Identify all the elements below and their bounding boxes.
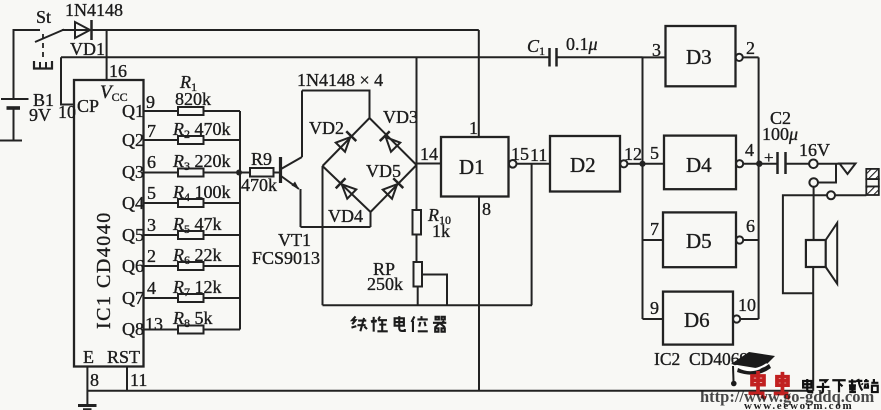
svg-text:R8 5k: R8 5k — [172, 308, 213, 330]
wire D1 out to D2 in — [517, 163, 551, 165]
resistor R5 — [144, 231, 241, 239]
diode VD4 — [336, 178, 357, 199]
svg-text:www.eeworm.com: www.eeworm.com — [744, 400, 853, 410]
svg-text:14: 14 — [420, 144, 438, 164]
wire NC contact link — [818, 164, 836, 183]
wire bridge right corner to D1 pin 14 — [417, 163, 442, 165]
diode bridge edges — [323, 118, 417, 212]
svg-text:1N4148: 1N4148 — [65, 0, 123, 20]
wire bridge bottom corner stub — [370, 212, 372, 227]
svg-text:D2: D2 — [570, 153, 596, 177]
plug symbol hatched — [866, 169, 879, 195]
wire collector to bridge top — [302, 91, 370, 119]
svg-text:7: 7 — [650, 219, 659, 239]
svg-text:5: 5 — [147, 183, 156, 203]
ground — [78, 406, 97, 410]
resistor R1 — [144, 107, 241, 115]
resistor R7 — [144, 294, 241, 302]
jack terminal circle 3 — [827, 191, 835, 199]
watermark text electronic download site (Chinese) — [803, 379, 878, 393]
svg-text:100μ: 100μ — [762, 124, 798, 144]
watermark chongchong red characters — [749, 371, 790, 398]
resistor R2 — [144, 136, 241, 144]
wire D5 out to output bus — [743, 239, 758, 241]
wire D3 out to output bus — [743, 56, 759, 58]
capacitor C2 polarized — [778, 152, 810, 174]
IC D3 — [643, 26, 736, 86]
svg-text:R3 220k: R3 220k — [172, 151, 231, 173]
svg-text:R4 100k: R4 100k — [172, 182, 231, 204]
svg-text:11: 11 — [530, 145, 547, 165]
svg-text:9V: 9V — [29, 105, 51, 125]
svg-text:IC1 CD4040: IC1 CD4040 — [93, 211, 115, 329]
svg-text:VD3: VD3 — [383, 107, 418, 127]
pin 6 bubble — [736, 236, 743, 243]
pin 1 wire vertical — [478, 30, 480, 137]
wire left vertical from top rail to battery — [14, 30, 41, 99]
wire circle3 to plug — [835, 194, 866, 196]
potentiometer RP — [414, 262, 448, 305]
resistor R9 — [240, 168, 279, 177]
wire pin16 vertical — [106, 30, 108, 80]
capacitor C1 — [479, 48, 643, 67]
IC D4 — [643, 136, 737, 190]
wire feedback from D1 output down — [531, 164, 533, 305]
IC D1 — [441, 137, 509, 197]
svg-text:Q7: Q7 — [122, 288, 144, 308]
svg-text:10: 10 — [738, 295, 756, 315]
svg-text:IC2 CD4069: IC2 CD4069 — [654, 349, 749, 369]
diode VD2 — [335, 131, 356, 152]
wire bridge left corner down to feedback rail — [322, 166, 324, 305]
svg-text:9: 9 — [146, 92, 155, 112]
diode VD5 — [382, 178, 403, 199]
svg-text:10: 10 — [58, 102, 76, 122]
svg-text:0.1μ: 0.1μ — [566, 34, 598, 54]
pin 4 bubble — [736, 160, 743, 167]
svg-text:3: 3 — [147, 215, 156, 235]
svg-text:Q4: Q4 — [122, 193, 144, 213]
wire emitter to bridge bottom — [301, 226, 371, 228]
resistor R6 — [144, 262, 241, 270]
svg-text:6: 6 — [746, 216, 755, 236]
svg-text:R2 470k: R2 470k — [172, 119, 231, 141]
wire ground rail bottom — [87, 390, 813, 392]
IC D6 — [643, 292, 734, 345]
wire to jack tip — [818, 163, 839, 165]
svg-text:VD5: VD5 — [366, 161, 401, 181]
svg-text:7: 7 — [147, 121, 156, 141]
wire resistor bus vertical — [239, 111, 241, 330]
svg-text:5: 5 — [650, 143, 659, 163]
svg-text:R6 22k: R6 22k — [172, 245, 222, 267]
svg-text:VD2: VD2 — [309, 118, 344, 138]
speaker LS — [806, 223, 837, 284]
wire D4 out to junction — [743, 163, 776, 165]
pin 15 bubble — [509, 160, 517, 168]
svg-text:Q1: Q1 — [122, 101, 144, 121]
pin 12 bubble — [620, 160, 627, 167]
svg-text:D3: D3 — [686, 45, 712, 69]
svg-text:Q3: Q3 — [122, 162, 144, 182]
wire bridge right corner up to Vcc rail — [416, 57, 418, 165]
wire output bus vertical — [758, 57, 760, 319]
switch St — [34, 30, 64, 69]
node junction output bus — [756, 161, 762, 167]
svg-text:2: 2 — [746, 38, 755, 58]
svg-text:12: 12 — [624, 144, 642, 164]
resistor R4 — [144, 199, 241, 207]
resistor R8 — [144, 326, 241, 334]
wire D6 out to output bus — [740, 318, 758, 320]
svg-text:4: 4 — [147, 278, 156, 298]
svg-text:D4: D4 — [686, 153, 712, 177]
transistor Q1 VT1 — [281, 91, 303, 228]
node junction input bus — [639, 161, 645, 167]
svg-text:R5 47k: R5 47k — [172, 214, 222, 236]
IC U1 IC1 CD4040 box — [74, 80, 144, 367]
jack terminal circle 1 — [809, 160, 818, 169]
svg-text:8: 8 — [482, 199, 491, 219]
pin 2 bubble — [736, 54, 743, 61]
svg-text:11: 11 — [130, 370, 147, 390]
jack tip triangle — [840, 164, 856, 175]
svg-text:6: 6 — [147, 152, 156, 172]
svg-text:Q6: Q6 — [122, 256, 144, 276]
diode VD3 — [380, 131, 401, 152]
svg-text:820k: 820k — [175, 89, 211, 109]
svg-text:16: 16 — [109, 61, 127, 81]
svg-text:4: 4 — [745, 140, 754, 160]
wire input bus vertical — [642, 57, 644, 319]
wire CP entry — [61, 57, 74, 104]
wire feedback rail y305 — [323, 304, 533, 306]
jack terminal circle 2 — [809, 178, 818, 187]
resistor R10 — [413, 165, 422, 262]
pin 10 bubble — [733, 315, 740, 322]
svg-text:CP: CP — [77, 96, 99, 116]
svg-text:8: 8 — [90, 370, 99, 390]
svg-text:FCS9013: FCS9013 — [252, 248, 320, 268]
svg-text:D5: D5 — [686, 229, 712, 253]
svg-text:2: 2 — [147, 246, 156, 266]
svg-text:1: 1 — [469, 118, 478, 138]
wire circle3 left loop to speaker bottom — [783, 195, 827, 293]
svg-text:+: + — [764, 148, 774, 167]
node junction R3 row — [236, 170, 242, 176]
wire D2 out to bus — [627, 163, 642, 165]
IC D5 — [643, 212, 737, 267]
svg-text:Q2: Q2 — [122, 130, 144, 150]
svg-text:VT1: VT1 — [278, 230, 311, 250]
svg-text:VD1: VD1 — [70, 39, 105, 59]
svg-text:16V: 16V — [799, 140, 830, 160]
svg-text:St: St — [36, 7, 51, 27]
wire top rail — [62, 29, 479, 31]
svg-text:250k: 250k — [367, 274, 403, 294]
svg-text:1N4148 × 4: 1N4148 × 4 — [297, 70, 383, 90]
svg-text:D6: D6 — [684, 308, 710, 332]
pin 8 wire D1 to ground rail — [478, 197, 480, 391]
svg-text:E: E — [83, 347, 94, 367]
svg-text:13: 13 — [145, 314, 163, 334]
battery B1 — [0, 99, 29, 141]
svg-text:R9: R9 — [251, 149, 272, 169]
IC D2 — [550, 136, 620, 192]
svg-text:9: 9 — [650, 298, 659, 318]
wire speaker bottom to ground rail — [812, 267, 814, 391]
svg-text:RST: RST — [107, 347, 140, 367]
svg-text:1k: 1k — [432, 221, 450, 241]
svg-text:VD4: VD4 — [328, 206, 363, 226]
svg-text:C1: C1 — [527, 36, 545, 58]
resistor R3 — [144, 169, 241, 177]
wire circle2 down to speaker — [813, 187, 815, 240]
svg-text:D1: D1 — [459, 155, 485, 179]
svg-text:3: 3 — [652, 40, 661, 60]
svg-text:Q8: Q8 — [122, 319, 144, 339]
svg-text:470k: 470k — [241, 175, 277, 195]
wire pin8 stub — [86, 367, 88, 406]
svg-text:15: 15 — [511, 144, 529, 164]
diode VD1 — [75, 20, 92, 40]
watermark graduation cap logo — [731, 352, 775, 386]
wire Vcc second rail y57 — [61, 56, 479, 58]
wire pin11 stub — [126, 367, 128, 391]
svg-text:R7 12k: R7 12k — [172, 277, 222, 299]
label linear potentiometer (Chinese) — [351, 316, 446, 332]
svg-text:Q5: Q5 — [122, 225, 144, 245]
